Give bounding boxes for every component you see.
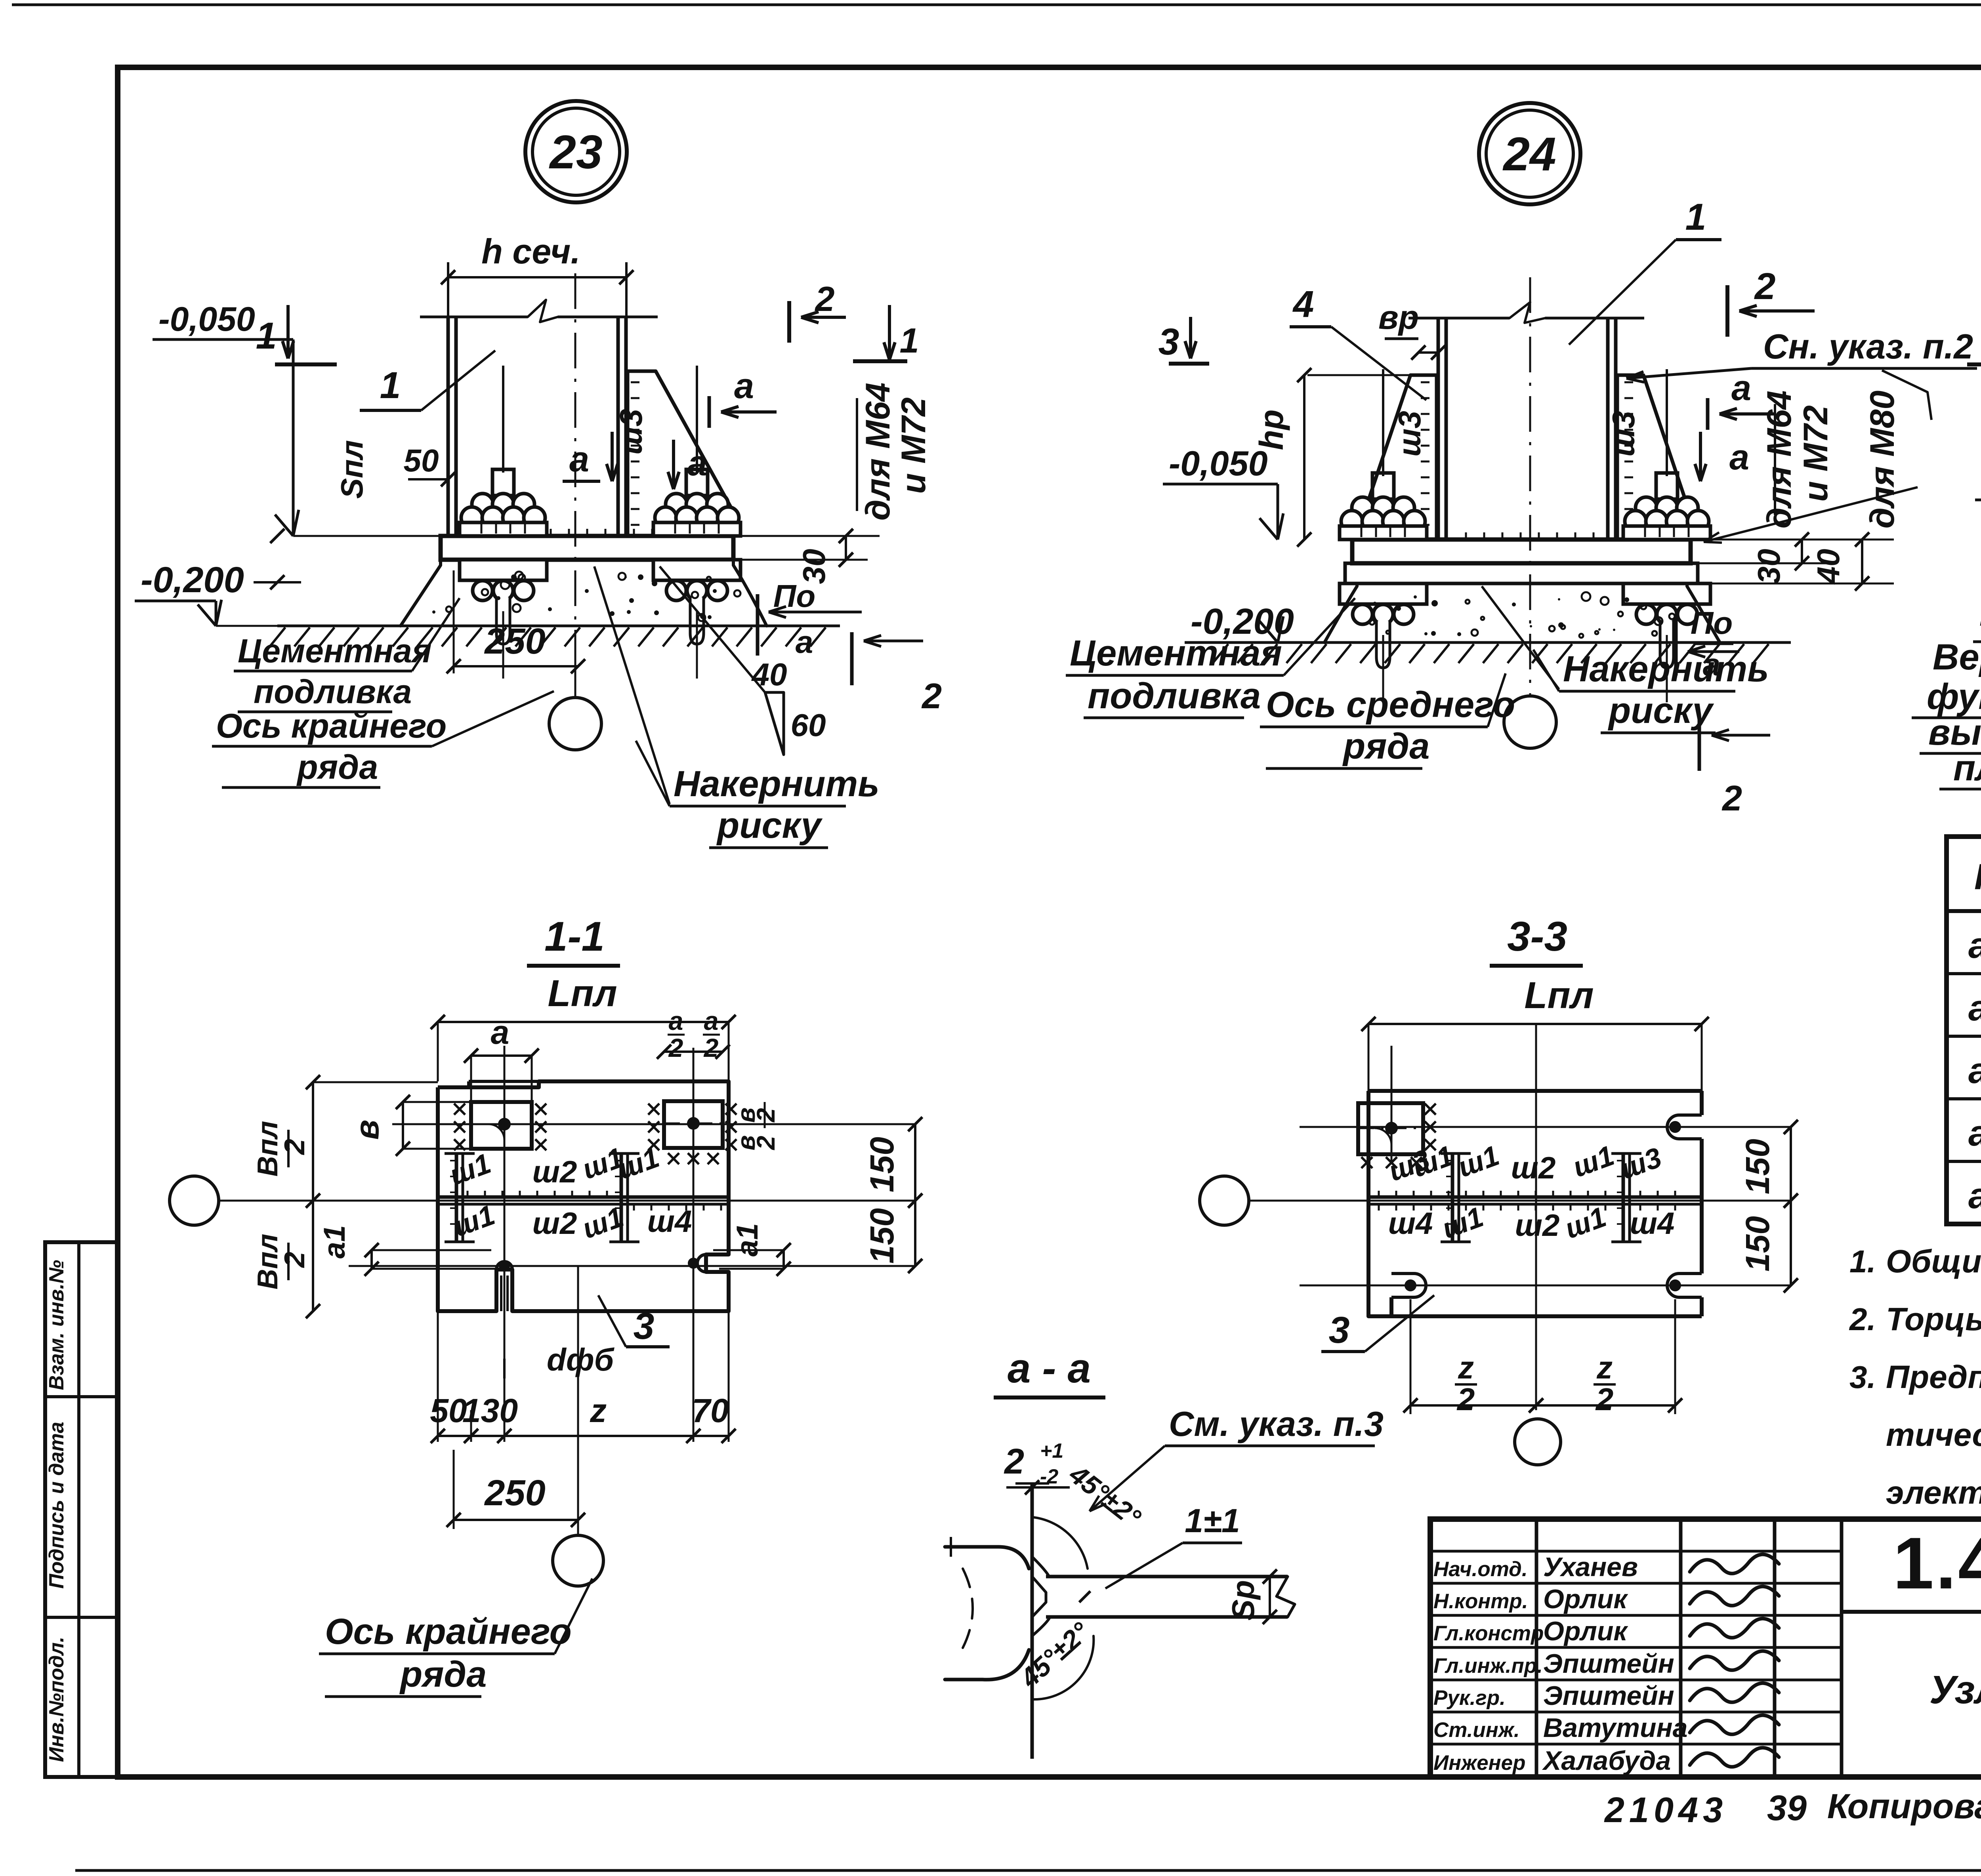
svg-text:250: 250 [484,621,546,662]
svg-text:2: 2 [752,1108,780,1123]
svg-text:1-1: 1-1 [544,913,605,960]
svg-text:2: 2 [1456,1382,1475,1417]
svg-text:в: в [348,1120,386,1140]
svg-text:Ось крайнего: Ось крайнего [325,1611,572,1652]
svg-text:1: 1 [380,364,401,406]
svg-text:150: 150 [1739,1216,1776,1272]
svg-text:2: 2 [1004,1442,1024,1481]
svg-text:Халабуда: Халабуда [1542,1746,1671,1776]
svg-text:и М72: и М72 [1797,405,1835,502]
svg-text:Общие указания приведены на до: Общие указания приведены на докум.18 КМ. [1886,1243,1981,1279]
svg-text:Размеры анкерных плиток мм: Размеры анкерных плиток мм [1974,857,1981,897]
svg-text:z: z [1458,1350,1474,1385]
svg-text:150: 150 [863,1137,901,1192]
svg-text:3: 3 [634,1305,655,1347]
svg-text:150: 150 [1739,1139,1776,1194]
svg-text:1: 1 [900,321,919,360]
svg-text:Накернить: Накернить [1563,649,1769,689]
svg-text:Нач.отд.: Нач.отд. [1433,1558,1528,1581]
svg-text:и М72: и М72 [895,397,933,494]
svg-text:ш4: ш4 [647,1204,692,1239]
svg-text:2: 2 [668,1033,683,1062]
svg-text:ряда: ряда [296,748,378,786]
svg-text:3-3: 3-3 [1507,913,1567,960]
svg-text:Ватутина: Ватутина [1543,1713,1687,1743]
svg-text:40: 40 [751,657,787,692]
svg-text:4: 4 [1292,283,1314,325]
svg-text:Узлы 23,24: Узлы 23,24 [1929,1668,1981,1712]
svg-text:130: 130 [462,1392,518,1429]
svg-text:Sпл: Sпл [334,440,369,499]
svg-text:ряда: ряда [399,1654,487,1695]
svg-text:а: а [687,444,707,483]
svg-text:z: z [1596,1350,1613,1385]
svg-text:24: 24 [1502,128,1556,181]
svg-text:1: 1 [256,315,277,357]
svg-text:подливка: подливка [254,673,412,710]
svg-text:1±1: 1±1 [1185,1502,1240,1539]
svg-text:250: 250 [484,1473,546,1513]
svg-text:ш3: ш3 [1392,411,1427,457]
svg-text:Цементная: Цементная [238,632,431,669]
svg-text:2: 2 [1754,265,1776,307]
svg-text:а - а: а - а [1008,1345,1091,1392]
svg-text:30: 30 [1751,549,1786,584]
svg-text:Взам. инв.№: Взам. инв.№ [45,1260,68,1390]
svg-text:а1: а1 [731,1223,764,1257]
svg-text:2.: 2. [1849,1302,1876,1337]
svg-text:40: 40 [1811,549,1846,585]
svg-text:39: 39 [1767,1788,1807,1828]
svg-text:+1: +1 [1040,1439,1063,1462]
svg-text:-0,050: -0,050 [158,300,255,338]
svg-text:См. указ. п.3: См. указ. п.3 [1169,1404,1384,1443]
svg-text:ш2: ш2 [532,1154,577,1189]
svg-text:-0,200: -0,200 [1979,601,1981,641]
svg-text:вр: вр [1378,299,1419,336]
svg-text:3: 3 [1158,321,1179,363]
svg-text:Верх: Верх [1933,637,1981,677]
svg-text:-0,200: -0,200 [141,560,244,600]
svg-text:1: 1 [1685,196,1706,238]
svg-text:Инв.№подл.: Инв.№подл. [45,1637,68,1762]
svg-text:а: а [669,1006,683,1035]
svg-text:для М80: для М80 [1863,391,1901,529]
svg-text:Орлик: Орлик [1543,1616,1628,1646]
svg-text:ряда: ряда [1342,726,1429,766]
svg-text:Н.контр.: Н.контр. [1433,1590,1528,1613]
svg-text:150: 150 [863,1208,901,1264]
svg-text:50: 50 [404,443,439,478]
svg-text:60: 60 [791,707,826,743]
svg-text:a x в = 180 x 230 ... для М80: a x в = 180 x 230 ... для М80 [1968,1176,1981,1216]
svg-text:а: а [796,624,813,660]
svg-text:ш2: ш2 [1511,1150,1556,1185]
svg-text:2: 2 [279,1139,311,1155]
svg-text:1.: 1. [1849,1244,1876,1279]
svg-text:ш2: ш2 [532,1206,577,1241]
svg-text:Эпштейн: Эпштейн [1543,1681,1674,1711]
svg-text:hр: hр [1253,410,1290,450]
svg-text:21043: 21043 [1604,1790,1727,1830]
svg-text:Инженер: Инженер [1433,1751,1526,1775]
svg-text:Уханев: Уханев [1543,1552,1638,1582]
svg-text:для М64: для М64 [1760,391,1798,529]
svg-text:3.: 3. [1849,1359,1876,1395]
svg-text:Lпл: Lпл [548,972,617,1014]
svg-text:-2: -2 [1040,1465,1058,1488]
svg-text:2: 2 [703,1033,719,1062]
svg-text:ш4: ш4 [1630,1206,1675,1241]
svg-text:dфб: dфб [547,1342,615,1377]
svg-text:3: 3 [1329,1309,1350,1351]
svg-text:1.424.3-7.3 19КМ: 1.424.3-7.3 19КМ [1893,1523,1981,1604]
svg-text:23: 23 [549,126,602,179]
svg-text:50: 50 [430,1392,467,1429]
svg-text:а: а [1729,438,1749,477]
svg-text:Предпочтительно применение пол: Предпочтительно применение полуавтома- [1886,1359,1981,1395]
svg-text:а: а [704,1006,719,1035]
svg-text:Копировал: Копировал [1827,1786,1981,1826]
svg-text:Гл.инж.пр.: Гл.инж.пр. [1433,1654,1543,1678]
svg-text:ш2: ш2 [1515,1208,1560,1243]
svg-text:а: а [1731,368,1751,408]
svg-text:2: 2 [1595,1382,1614,1417]
svg-text:Сн. указ. п.2: Сн. указ. п.2 [1763,327,1973,366]
svg-text:фундамента: фундамента [1927,677,1981,717]
svg-text:а: а [734,366,754,406]
svg-text:Lпл: Lпл [1524,974,1594,1016]
svg-text:а1: а1 [318,1225,351,1259]
svg-text:z: z [590,1392,607,1429]
svg-text:a x в = 180 x 200 ... для М72: a x в = 180 x 200 ... для М72 [1968,1113,1981,1153]
svg-text:2: 2 [1721,779,1742,818]
svg-text:Ось среднего: Ось среднего [1266,684,1515,725]
svg-text:a x в = 150 x 150... для М48: a x в = 150 x 150... для М48 [1968,925,1981,966]
svg-text:электродами диаметром 1,2-1,6: электродами диаметром 1,2-1,6 мм. [1886,1475,1981,1511]
svg-text:Sр: Sр [1225,1580,1261,1621]
svg-text:Ось крайнего: Ось крайнего [216,707,447,745]
svg-text:Эпштейн: Эпштейн [1543,1649,1674,1679]
svg-text:Цементная: Цементная [1070,633,1282,673]
svg-text:Орлик: Орлик [1543,1584,1628,1614]
svg-text:2: 2 [815,279,835,318]
svg-text:2: 2 [752,1136,780,1150]
svg-text:Гл.констр: Гл.констр [1433,1622,1544,1645]
svg-text:Торцы ребер обварить.: Торцы ребер обварить. [1886,1301,1981,1337]
svg-text:Ст.инж.: Ст.инж. [1433,1718,1520,1742]
svg-text:ш3: ш3 [1606,411,1641,457]
svg-text:a x в = 180 x 180 ... для М64: a x в = 180 x 180 ... для М64 [1968,1050,1981,1091]
svg-text:ш4: ш4 [1388,1206,1433,1241]
svg-text:70: 70 [692,1392,729,1429]
svg-text:риску: риску [716,805,823,846]
svg-text:Рук.гр.: Рук.гр. [1433,1686,1506,1710]
svg-text:2: 2 [921,677,942,716]
svg-text:подливка: подливка [1088,676,1261,716]
svg-text:Подпись и дата: Подпись и дата [45,1422,68,1589]
svg-text:По: По [1691,605,1733,641]
svg-text:ш3: ш3 [613,409,649,455]
svg-text:Накернить: Накернить [674,764,880,804]
svg-text:2: 2 [279,1252,311,1268]
svg-text:тической сварки в углекислом г: тической сварки в углекислом газе тонким… [1886,1417,1981,1453]
svg-text:для М64: для М64 [859,383,897,521]
svg-text:h сеч.: h сеч. [481,232,580,271]
svg-text:а: а [569,440,589,479]
svg-text:a x в = 160 x 160 ... для М56: a x в = 160 x 160 ... для М56 [1968,988,1981,1028]
svg-text:а: а [491,1014,510,1051]
